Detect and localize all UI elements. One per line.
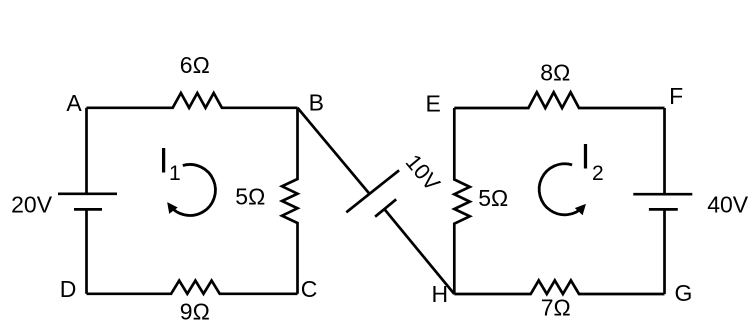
- svg-text:F: F: [669, 83, 683, 109]
- svg-text:B: B: [309, 89, 324, 115]
- svg-text:5Ω: 5Ω: [478, 185, 508, 211]
- svg-text:20V: 20V: [11, 191, 53, 217]
- svg-text:I: I: [159, 141, 169, 180]
- svg-text:2: 2: [592, 162, 604, 185]
- svg-text:A: A: [66, 90, 82, 116]
- svg-text:H: H: [431, 281, 448, 307]
- svg-text:C: C: [301, 276, 318, 302]
- svg-text:5Ω: 5Ω: [235, 184, 265, 210]
- svg-text:9Ω: 9Ω: [180, 298, 210, 324]
- svg-text:E: E: [426, 91, 441, 117]
- svg-text:I: I: [581, 138, 591, 177]
- svg-text:D: D: [60, 276, 77, 302]
- svg-text:10V: 10V: [401, 149, 446, 195]
- svg-text:6Ω: 6Ω: [180, 52, 210, 78]
- svg-text:40V: 40V: [707, 192, 749, 218]
- svg-text:1: 1: [169, 162, 181, 185]
- svg-text:G: G: [675, 280, 693, 306]
- svg-text:8Ω: 8Ω: [540, 59, 570, 85]
- svg-text:7Ω: 7Ω: [541, 295, 571, 321]
